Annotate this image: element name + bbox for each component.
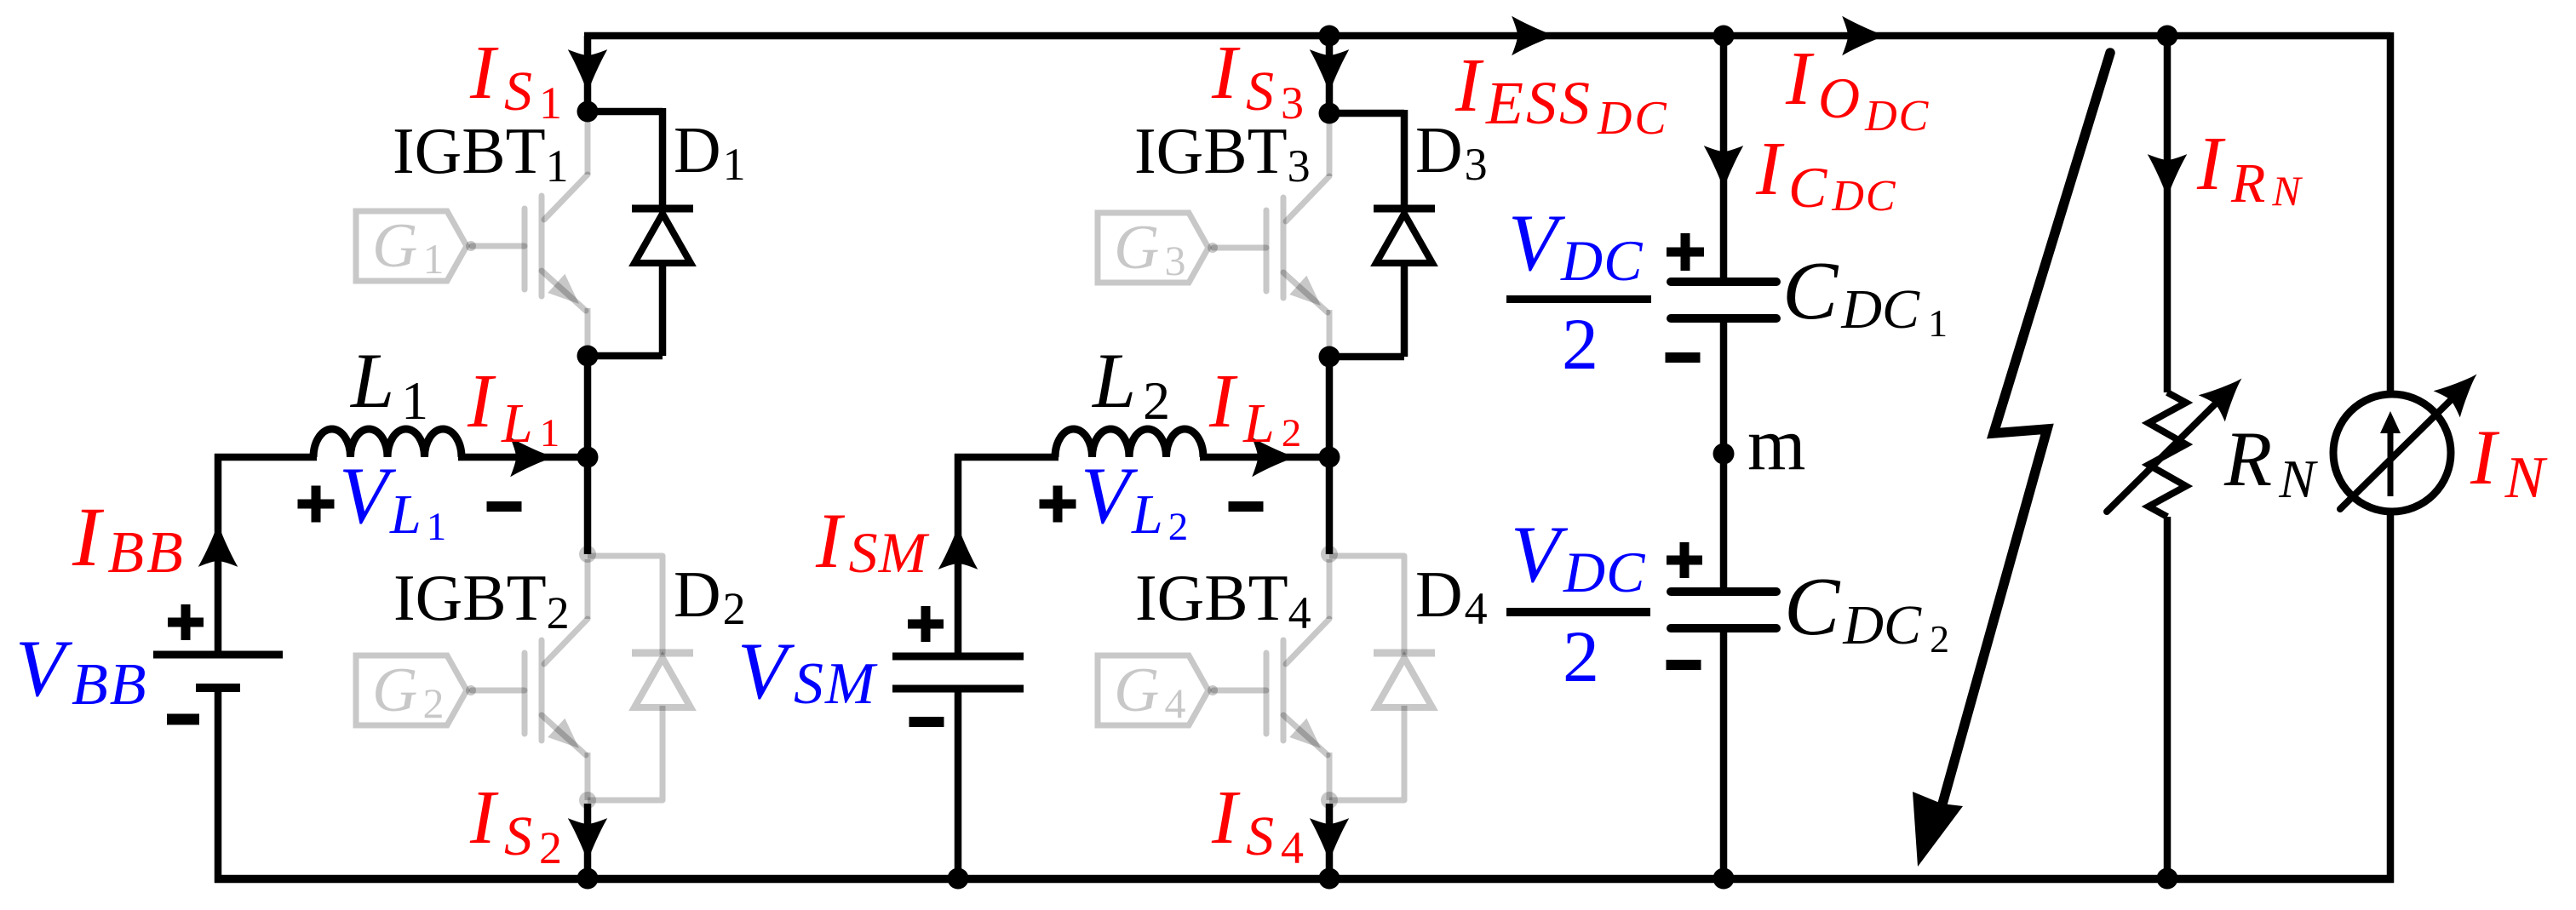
svg-text:G4: G4 bbox=[1114, 655, 1185, 727]
label V_DC/2 upper bbox=[1506, 197, 1651, 385]
resistor R_N zigzag bbox=[2149, 392, 2186, 517]
wire D2 bottom connection (gray) bbox=[588, 706, 663, 800]
capacitor C_DC1 top plate bbox=[1671, 278, 1776, 286]
arrow variable R_N diagonal bbox=[2107, 369, 2252, 512]
label I_ESS_DC bbox=[1454, 43, 1669, 145]
arrow I_L2 bbox=[1254, 439, 1294, 475]
transistor IGBT1 bbox=[472, 115, 588, 356]
svg-text:IGBT2: IGBT2 bbox=[393, 561, 570, 638]
wire R_N lower bbox=[2164, 517, 2172, 879]
label C_DC2 + bbox=[1667, 542, 1702, 578]
label I_BB bbox=[72, 489, 186, 586]
label I_S1 bbox=[469, 31, 562, 129]
node leg2 switch-node bbox=[1319, 447, 1340, 468]
label I_L2 bbox=[1208, 359, 1301, 455]
wire R_N upper bbox=[2164, 36, 2172, 392]
wire D2 top connection (gray) bbox=[588, 556, 663, 655]
node gray IGBT2 collector joint bbox=[579, 546, 596, 563]
inductor L2 bbox=[1055, 429, 1203, 457]
arrow I_S1 bbox=[570, 51, 605, 91]
transistor IGBT2 bbox=[472, 559, 588, 800]
capacitor C_DC2 top plate bbox=[1671, 587, 1776, 596]
svg-text:VL1: VL1 bbox=[339, 450, 446, 549]
label D_3 bbox=[1415, 113, 1488, 190]
wire I_S4 stem bbox=[1326, 804, 1334, 879]
wire V_SM top to L2 bbox=[955, 454, 1059, 461]
wire leg1 below switch-node bbox=[584, 457, 592, 554]
svg-text:IN: IN bbox=[2470, 414, 2548, 511]
svg-text:D1: D1 bbox=[674, 113, 746, 190]
label V_SM - bbox=[909, 717, 944, 727]
svg-text:2: 2 bbox=[1563, 615, 1599, 697]
wire L1 to leg1 bbox=[458, 454, 588, 461]
label V_BB bbox=[15, 623, 148, 718]
arrow I_S2 bbox=[570, 820, 605, 860]
node leg1 bottom rail bbox=[577, 868, 599, 890]
wire leg2 below switch-node bbox=[1326, 457, 1334, 554]
current source I_N circle bbox=[2333, 394, 2451, 512]
wire L2 to leg2 bbox=[1200, 454, 1329, 461]
wire top DC+ rail bbox=[584, 32, 2390, 40]
node leg2 collector bbox=[1319, 103, 1340, 124]
supercap V_SM bottom plate bbox=[892, 685, 1024, 693]
battery V_BB long plate bbox=[153, 651, 283, 659]
wire C_DC mid upper bbox=[1720, 318, 1728, 454]
node m bbox=[1713, 444, 1735, 465]
label C_DC2 - bbox=[1667, 660, 1701, 670]
node R_N top rail bbox=[2157, 26, 2178, 47]
label L_2 bbox=[1091, 337, 1170, 431]
label +V_L1- bbox=[298, 450, 522, 549]
svg-text:IESSDC: IESSDC bbox=[1454, 43, 1669, 145]
svg-text:L2: L2 bbox=[1091, 337, 1170, 431]
wire V_SM column upper bbox=[955, 454, 962, 656]
label D_4 bbox=[1415, 558, 1488, 634]
wire leg1 mid bbox=[584, 356, 592, 457]
svg-text:RN: RN bbox=[2223, 415, 2318, 509]
svg-text:IRN: IRN bbox=[2196, 122, 2303, 215]
svg-text:IL1: IL1 bbox=[467, 359, 559, 455]
inductor L1 bbox=[313, 429, 462, 457]
svg-text:IGBT4: IGBT4 bbox=[1135, 561, 1311, 638]
label battery - bbox=[167, 714, 199, 725]
svg-text:G2: G2 bbox=[372, 655, 444, 727]
node leg1 switch-node bbox=[577, 447, 599, 468]
label IGBT_4 bbox=[1135, 561, 1311, 638]
svg-text:G1: G1 bbox=[372, 211, 444, 283]
label battery + bbox=[168, 604, 204, 640]
label C_DC1 + bbox=[1667, 233, 1704, 271]
arrow I_ESS_DC on top rail bbox=[1513, 18, 1553, 54]
label C_DC2 bbox=[1784, 561, 1949, 661]
label m bbox=[1747, 403, 1805, 486]
transistor IGBT4 bbox=[1213, 559, 1329, 800]
wire right branch vertical (I_N branch upper) bbox=[2387, 32, 2395, 394]
wire D4 top connection (gray) bbox=[1329, 556, 1404, 655]
svg-text:m: m bbox=[1747, 403, 1805, 486]
label L_1 bbox=[349, 337, 428, 431]
label I_O_DC bbox=[1785, 37, 1930, 140]
gate driver G1 bbox=[356, 211, 476, 283]
svg-text:IODC: IODC bbox=[1785, 37, 1930, 140]
svg-text:VDC: VDC bbox=[1508, 197, 1644, 293]
svg-text:IS4: IS4 bbox=[1211, 776, 1304, 873]
node gray IGBT2 emitter joint bbox=[579, 792, 596, 809]
svg-text:VSM: VSM bbox=[737, 626, 878, 717]
arrow I_S3 bbox=[1311, 51, 1347, 91]
wire C_DC column lower bbox=[1720, 627, 1728, 879]
arrow I_S4 bbox=[1311, 820, 1347, 860]
wire D3 top connection bbox=[1329, 110, 1404, 210]
node leg2 bottom rail bbox=[1319, 868, 1340, 890]
gate driver G3 bbox=[1098, 213, 1218, 284]
wire leg2 mid bbox=[1326, 357, 1334, 457]
load-step bolt arrow bbox=[1913, 53, 2110, 867]
wire bottom DC- rail bbox=[215, 875, 2394, 884]
wire IGBT1 collector stem bbox=[584, 36, 592, 112]
node R_N bottom rail bbox=[2157, 868, 2178, 890]
label V_SM + bbox=[908, 606, 944, 642]
svg-text:IS2: IS2 bbox=[469, 776, 562, 873]
wire D1 bottom connection bbox=[588, 261, 663, 356]
wire D1 top connection bbox=[588, 108, 663, 210]
transistor IGBT3 bbox=[1213, 117, 1329, 358]
arrow I_L1 bbox=[512, 439, 552, 475]
diode D1 bbox=[632, 209, 693, 263]
label D_2 bbox=[674, 558, 746, 634]
capacitor C_DC1 bottom plate bbox=[1671, 314, 1776, 323]
label I_SM bbox=[815, 497, 930, 585]
label V_DC/2 lower bbox=[1506, 509, 1650, 697]
label C_DC1 - bbox=[1666, 352, 1701, 363]
label D_1 bbox=[674, 113, 746, 190]
node leg2 top rail bbox=[1319, 26, 1340, 47]
wire battery column lower bbox=[215, 688, 222, 883]
wire battery column upper bbox=[215, 454, 222, 655]
svg-text:D2: D2 bbox=[674, 558, 746, 634]
label I_L1 bbox=[467, 359, 559, 455]
svg-text:2: 2 bbox=[1562, 303, 1598, 385]
wire IGBT3 collector stem bbox=[1326, 36, 1334, 113]
current source I_N inner arrow bbox=[2380, 411, 2401, 496]
arrow variable I_N diagonal bbox=[2340, 364, 2487, 509]
arrow I_O_DC on top rail bbox=[1844, 18, 1884, 54]
node leg1 emitter/D1 bbox=[577, 346, 599, 367]
label IGBT_2 bbox=[393, 561, 570, 638]
label I_S4 bbox=[1211, 776, 1304, 873]
svg-text:IGBT3: IGBT3 bbox=[1134, 114, 1311, 192]
svg-text:IGBT1: IGBT1 bbox=[393, 114, 569, 192]
arrow I_C_DC bbox=[1706, 147, 1741, 187]
node leg2 emitter/D3 bbox=[1319, 346, 1340, 368]
label I_N bbox=[2470, 414, 2548, 511]
svg-text:IBB: IBB bbox=[72, 489, 186, 586]
label R_N bbox=[2223, 415, 2318, 509]
label I_S2 bbox=[469, 776, 562, 873]
label V_SM bbox=[737, 626, 878, 717]
svg-text:IL2: IL2 bbox=[1208, 359, 1301, 455]
wire battery top to L1 bbox=[215, 454, 317, 461]
svg-text:VDC: VDC bbox=[1511, 509, 1646, 604]
svg-text:ICDC: ICDC bbox=[1755, 127, 1897, 220]
label IGBT_3 bbox=[1134, 114, 1311, 192]
battery V_BB short plate bbox=[196, 684, 240, 692]
arrow I_SM bbox=[940, 528, 976, 568]
svg-text:CDC1: CDC1 bbox=[1782, 245, 1948, 345]
wire D4 bottom connection (gray) bbox=[1329, 706, 1404, 800]
capacitor C_DC2 bottom plate bbox=[1671, 624, 1776, 632]
node V_SM bottom rail bbox=[948, 868, 969, 890]
svg-text:G3: G3 bbox=[1114, 213, 1185, 284]
node C_DC column top rail bbox=[1713, 26, 1735, 47]
svg-text:D4: D4 bbox=[1415, 558, 1488, 634]
wire V_SM column lower bbox=[955, 689, 962, 879]
label +V_L2- bbox=[1040, 450, 1264, 549]
wire right branch vertical (I_N branch lower) bbox=[2387, 512, 2395, 883]
node C_DC bottom rail bbox=[1713, 868, 1735, 890]
svg-text:L1: L1 bbox=[349, 337, 428, 431]
supercap V_SM top plate bbox=[892, 653, 1024, 661]
diode D4 (inactive) bbox=[1374, 653, 1435, 707]
svg-text:VL2: VL2 bbox=[1081, 450, 1188, 549]
svg-text:VBB: VBB bbox=[15, 623, 148, 718]
wire I_S2 stem bbox=[584, 804, 592, 879]
label I_C_DC bbox=[1755, 127, 1897, 220]
label C_DC1 bbox=[1782, 245, 1948, 345]
node gray IGBT4 emitter joint bbox=[1321, 792, 1338, 809]
label IGBT_1 bbox=[393, 114, 569, 192]
svg-text:ISM: ISM bbox=[815, 497, 930, 585]
wire C_DC column upper bbox=[1720, 36, 1728, 282]
node leg1 collector bbox=[577, 101, 599, 123]
arrow I_BB bbox=[200, 525, 236, 565]
arrow I_R_N bbox=[2149, 156, 2185, 196]
label I_R_N bbox=[2196, 122, 2303, 215]
gate driver G4 bbox=[1098, 655, 1218, 727]
diode D3 bbox=[1374, 209, 1435, 263]
node gray IGBT4 collector joint bbox=[1321, 546, 1338, 563]
wire C_DC mid lower bbox=[1720, 454, 1728, 591]
gate driver G2 bbox=[356, 655, 476, 727]
wire D3 bottom connection bbox=[1329, 261, 1404, 357]
diode D2 (inactive) bbox=[632, 653, 693, 707]
label I_S3 bbox=[1211, 31, 1304, 129]
svg-text:CDC2: CDC2 bbox=[1784, 561, 1949, 661]
